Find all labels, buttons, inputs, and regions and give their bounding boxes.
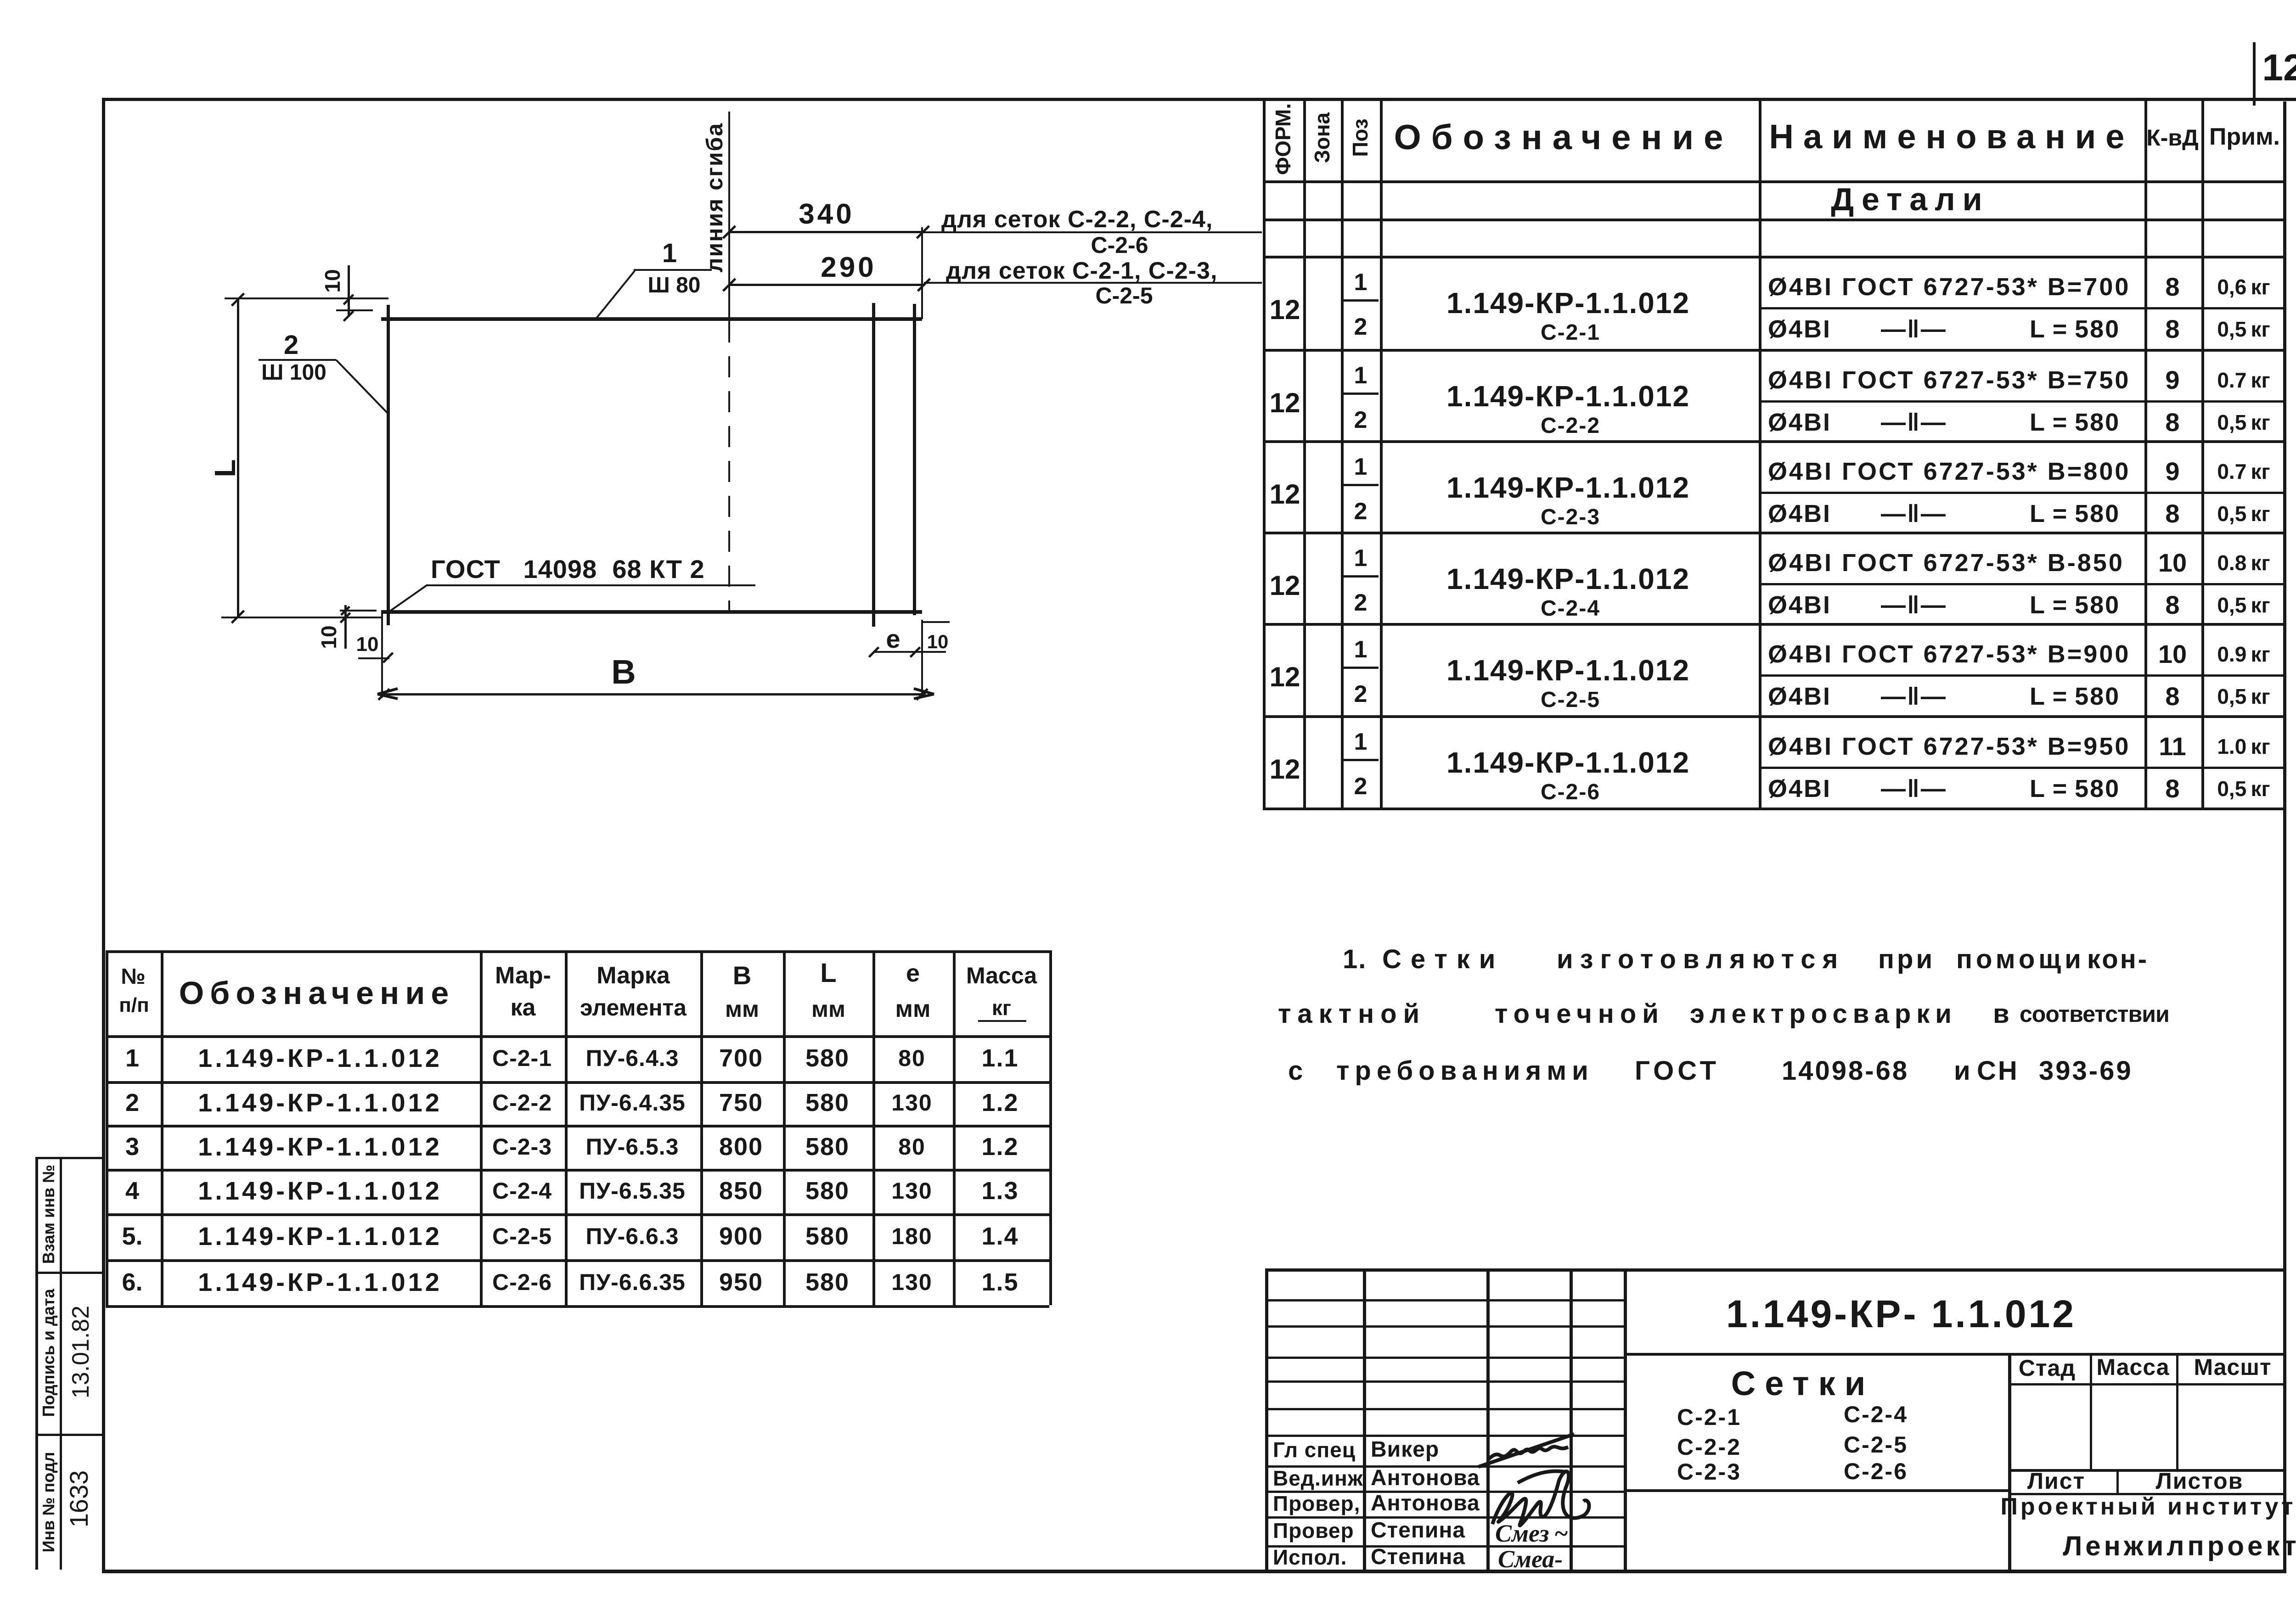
title Сетки [1731,1367,1874,1401]
dim text B [611,655,636,689]
underline under кг [978,1020,1026,1022]
callout Ш 80 [648,275,701,297]
stamp label Взам инв № [40,1165,57,1264]
short extension (top 10) [336,309,373,311]
short extension (right 10) [923,621,950,623]
header Зона (rotated) [1311,112,1333,163]
mesh drawing: right-area wire A [872,303,875,627]
short extension (bottom 10) [340,610,377,611]
list С-2-4 [1844,1403,1908,1426]
spec group 5: С-2-5 [1759,674,2286,677]
list С-2-5 [1844,1433,1908,1456]
callout Ш 100 [261,362,326,384]
list С-2-2 [1677,1436,1741,1458]
sig grid line y=3247 [1265,1491,1624,1493]
label C-2-6 [1091,234,1148,257]
header В мм [733,963,751,988]
sig col 3 [1486,1268,1490,1570]
stamp value 13.01.82 [69,1306,93,1398]
label C-2-5 [1095,284,1153,307]
parts table vline 1 [161,950,163,1305]
dimension line 340 [729,231,923,233]
B left extension [381,614,383,698]
Масса/Масшт divider [2176,1353,2178,1469]
sheet number tick [2253,42,2256,106]
weld label underline [427,584,755,586]
dim text 10 (top, rotated) [322,269,343,292]
header ФОРМ (rotated) [1272,103,1294,175]
parts table vline 0 [106,950,108,1305]
spec col ПОЗ [1341,101,1344,808]
spec group 2 bottom [1263,440,2286,443]
title block top [1265,1268,2286,1272]
header № п/п [121,966,146,988]
Лист row top [2008,1469,2286,1472]
dim text 340 [799,200,854,229]
parts row 1 С-2-1 [125,1046,139,1071]
stamp line 2 [35,1434,105,1436]
callout 2/Ш100 leader [336,359,388,414]
dimension line 290 [729,284,924,286]
parts table hline 5 [106,1213,1049,1216]
dim text 10 (bottom, rotated) [318,625,339,649]
spec group 6: С-2-6 [1759,767,2286,769]
section title Детали [1831,183,1989,215]
header Марка элемента [597,964,670,987]
signature Смеа [1498,1547,1563,1571]
dimension line L [237,298,239,617]
signature scribbles [1474,1428,1658,1570]
border right [2283,101,2286,1573]
sig grid line y=3192 [1265,1465,1624,1468]
parts row 3 С-2-3 [125,1134,139,1159]
callout pos 2 [284,332,298,359]
header е мм [906,961,920,986]
label for meshes C-2-2 C-2-4 [941,208,1213,231]
sheet number 12 [2262,49,2296,87]
sig col 2 [1363,1268,1366,1570]
sig grid line y=3366 [1265,1545,1624,1548]
sig grid line y=2955 [1265,1357,1624,1359]
spec empty row bottom [1263,256,2286,258]
sig grid line y=3303 [1265,1516,1624,1519]
dim text L [210,459,240,477]
signature row Вед.инж Антонова [1273,1468,1363,1489]
bottom overhang 10 tick line [344,605,347,649]
spec col Обозначение [1380,101,1383,808]
parts table vline 2 [480,950,483,1305]
header Наименование [1769,120,2134,154]
mesh drawing: right edge wire B [913,304,916,615]
title designation [1726,1295,2076,1333]
header Обозначение (parts) [179,977,455,1009]
mesh drawing: top transverse bar [381,317,922,321]
parts table hline 4 [106,1169,1049,1172]
spec row Детали bottom [1263,219,2286,221]
short dim line (left overhang 10) [358,657,389,659]
header Поз (rotated) [1350,118,1371,157]
parts row 4 С-2-4 [125,1178,139,1203]
stamp left edge [35,1157,38,1570]
spec group 5 bottom [1263,715,2286,718]
name field bottom [1624,1489,2008,1492]
top extension line [225,297,388,299]
parts row 5. С-2-5 [122,1224,142,1249]
weld spec ГОСТ 14098-68 КТ2 [431,556,705,582]
sig grid line y=3007 [1265,1380,1624,1383]
stamp label Инв № подл [40,1452,57,1553]
spec col Наименование [1759,101,1761,808]
spec group 4 bottom [1263,623,2286,626]
spec col Зона [1303,101,1306,808]
header Прим [2209,125,2280,149]
dimension line e [874,651,915,653]
parts table vline 3 [565,950,568,1305]
parts table hline 2 [106,1081,1049,1084]
sig col 5 [1624,1268,1627,1570]
parts table hline 7 [106,1305,1049,1308]
spec header bottom [1263,180,2286,183]
signature row Провер Степина [1273,1520,1354,1541]
parts table vline 8 [1049,950,1052,1305]
org line 1 [2000,1495,2296,1519]
B right extension [921,620,923,698]
fold line solid upper segment [728,112,730,321]
border top [102,98,2296,101]
leader line for C-2-2,4,6 [923,231,1262,233]
parts row 6. С-2-6 [122,1270,142,1295]
spec group 1: С-2-1 [1759,307,2286,309]
Стад/Масса divider [2090,1353,2092,1469]
header Масса [2096,1356,2169,1379]
title block left [1265,1268,1268,1570]
dim text 290 [821,253,876,282]
signature row Гл спец Викер [1273,1439,1356,1460]
Стад header bottom [2008,1383,2286,1385]
stamp label Подпись и дата [40,1289,57,1417]
header Марка [495,964,551,987]
extension line right of 340/290 dims [921,227,923,319]
sig grid line y=3125 [1265,1435,1624,1437]
spec group 4: С-2-4 [1759,583,2286,585]
parts table hline 1 [106,1035,1049,1038]
list С-2-1 [1677,1406,1741,1429]
spec table bottom [1263,808,2286,810]
header Лист [2027,1470,2085,1492]
header Обозначение [1394,120,1733,155]
spec col К-во [2144,101,2147,808]
bottom extension line [221,617,382,618]
B dim arrowheads [377,684,413,704]
dimension line B [380,693,926,696]
spec group 3: С-2-3 [1759,492,2286,494]
callout pos 1 [662,240,677,267]
org name Ленжилпроект [2063,1532,2296,1560]
list С-2-6 [1844,1460,1908,1483]
stamp line 1 [35,1272,105,1274]
parts table vline 6 [872,950,875,1305]
spec group 1 bottom [1263,349,2286,352]
spec col ФОРМ left [1263,101,1266,808]
spec group 3 bottom [1263,532,2286,534]
header Масшт [2194,1356,2271,1379]
dim text e [886,626,900,652]
sig grid line y=2887 [1265,1325,1624,1328]
technical note paragraph [1343,946,1367,973]
fold line label (rotated) [703,123,726,273]
parts table vline 7 [953,950,956,1305]
header К-во [2146,126,2199,149]
right subtable left edge [2008,1353,2011,1570]
designation field bottom [1624,1353,2286,1356]
spec col Прим [2201,101,2204,808]
spec group 2: С-2-2 [1759,400,2286,403]
signature row Провер, Антонова [1273,1493,1360,1514]
Лист row bottom [2008,1493,2286,1495]
parts table hline 3 [106,1125,1049,1127]
signature Смез [1495,1521,1568,1546]
parts table hline 6 [106,1259,1049,1262]
fold line dashed segment [728,321,730,611]
header L мм [820,960,836,987]
sig grid line y=3067 [1265,1408,1624,1410]
sig col 4 [1570,1268,1573,1570]
parts table vline 4 [700,950,703,1305]
list С-2-3 [1677,1460,1741,1483]
stamp divider [60,1157,62,1570]
mesh drawing: left longitudinal wire [387,305,390,625]
top overhang 10 tick line [348,265,350,317]
signature row Испол. Степина [1273,1547,1347,1568]
sig grid line y=2830 [1265,1299,1624,1301]
header Листов [2156,1470,2244,1492]
parts table hline 0 [106,950,1049,953]
header Стад [2019,1357,2076,1380]
mesh drawing: bottom transverse bar [381,610,922,614]
dim text 10 (bottom horizontal) [356,634,379,655]
callout 1/Ш80 shelf [634,269,712,271]
label for meshes C-2-1 C-2-3 [946,259,1217,283]
header Масса кг [966,964,1037,987]
stamp top [35,1157,105,1159]
parts row 2 С-2-2 [125,1090,139,1115]
callout 2/Ш100 shelf [259,359,336,361]
border left [102,98,105,1573]
dimension line 10 (right) [915,651,946,653]
border bottom [102,1570,2286,1573]
leader line for C-2-1,3,5 [924,282,1262,284]
callout 1/Ш80 leader [595,270,635,320]
stamp value 1633 [66,1470,92,1528]
parts table vline 5 [783,950,786,1305]
dim text 10 (right) [927,632,949,651]
Лист/Листов divider [2116,1469,2119,1493]
weld label leader [388,584,428,613]
